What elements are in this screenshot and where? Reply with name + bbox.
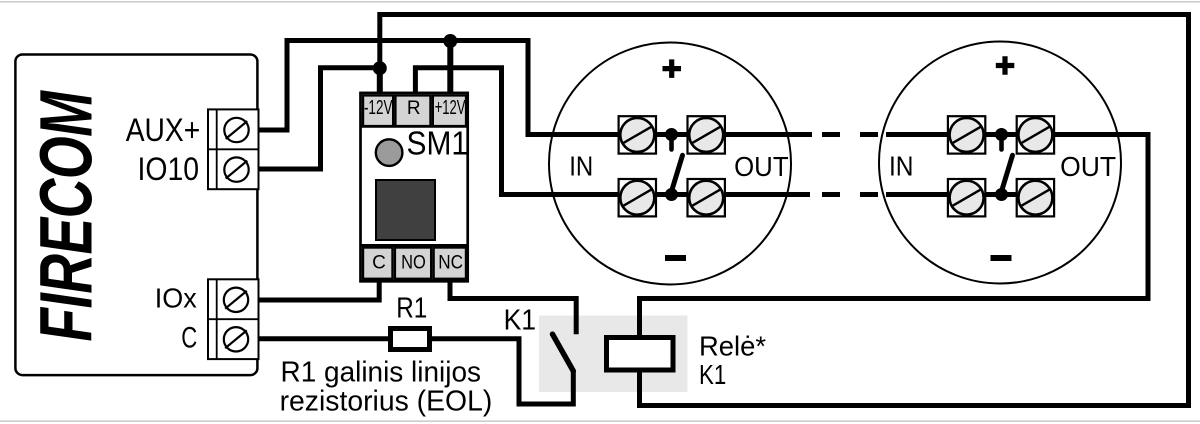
svg-text:R1: R1: [396, 293, 427, 325]
label - detector 2: [991, 255, 1012, 261]
screw terminal IOx: [224, 288, 248, 312]
screw terminal det2 IN+: [948, 116, 985, 153]
wire NC terminal to switch fixed contact: [450, 281, 576, 334]
wire detector1 OUT-: [723, 192, 810, 197]
label + detector 1: [663, 59, 682, 78]
terminal block IOx/C: [208, 279, 259, 359]
wire detector1 OUT+: [723, 132, 812, 137]
screw terminal IO10: [224, 157, 248, 181]
node det2 bottom junction: [995, 188, 1008, 201]
svg-text:R: R: [407, 98, 421, 119]
screw terminal det2 IN-: [948, 179, 985, 216]
wire C panel terminal to resistor R1: [259, 336, 391, 341]
label + detector 2: [996, 56, 1015, 75]
svg-text:IOx: IOx: [155, 283, 197, 314]
wire +12V pin: [447, 41, 453, 94]
screw terminal det1 OUT-: [688, 179, 725, 216]
wire top loop to relay coil bottom: [380, 15, 1189, 406]
svg-text:C: C: [181, 322, 197, 355]
svg-text:NC: NC: [438, 252, 463, 273]
module SM1 body: [361, 93, 468, 281]
svg-text:IN: IN: [569, 151, 593, 182]
terminal cell NC: [434, 248, 466, 279]
page bottom rule: [0, 420, 1200, 422]
wire detector2 top internal: [985, 132, 1020, 137]
screw terminal det2 OUT-: [1017, 179, 1054, 216]
svg-text:IN: IN: [889, 151, 914, 182]
node det2 top junction: [995, 128, 1008, 141]
node det1 bottom junction: [665, 188, 678, 201]
wire resistor R1 to switch moving contact: [430, 339, 573, 404]
wire IOx to C terminal of SM1: [259, 281, 380, 300]
svg-text:-12V: -12V: [364, 97, 393, 119]
relay component block: [376, 180, 435, 240]
FIRECOM panel box: [15, 55, 257, 376]
wire detector2 IN-: [886, 192, 951, 197]
svg-text:OUT: OUT: [734, 151, 789, 182]
wire -12V pin: [377, 68, 383, 94]
wire dashed loop continuation -: [822, 192, 878, 197]
svg-text:SM1: SM1: [407, 124, 469, 161]
switch blade K1: [553, 334, 574, 371]
switch contact detector 1: [671, 135, 682, 193]
terminal cell NO: [395, 248, 431, 279]
screw terminal det1 IN-: [619, 179, 656, 216]
svg-text:NO: NO: [401, 252, 426, 273]
svg-text:OUT: OUT: [1060, 151, 1116, 182]
wire net AUX+ to +12V and detector1 IN+: [259, 41, 621, 135]
svg-text:K1: K1: [504, 304, 536, 336]
screw terminal det1 OUT+: [688, 116, 725, 153]
svg-text:rezistorius (EOL): rezistorius (EOL): [280, 386, 493, 418]
screw terminal det2 OUT+: [1017, 116, 1054, 153]
relay area background: [539, 316, 688, 393]
label - detector 1: [665, 255, 686, 261]
svg-text:FIRECOM: FIRECOM: [24, 90, 107, 342]
svg-text:AUX+: AUX+: [126, 112, 201, 148]
relay coil K1: [607, 338, 674, 371]
wire net IO10 to -12V: [259, 68, 380, 169]
svg-text:+12V: +12V: [435, 97, 466, 119]
wire detector2 OUT+ to relay coil top: [640, 135, 1149, 340]
svg-text:R1 galinis linijos: R1 galinis linijos: [281, 357, 482, 389]
terminal block AUX+/IO10: [208, 109, 259, 189]
wire dashed loop continuation +: [822, 132, 878, 137]
detector 2 circle: [879, 42, 1121, 284]
wire detector2 bottom internal: [985, 192, 1020, 197]
terminal cell C: [363, 248, 393, 279]
svg-text:Relė*: Relė*: [699, 331, 766, 362]
node junction +12V: [443, 34, 457, 48]
LED indicator: [376, 139, 403, 166]
svg-text:C: C: [372, 252, 386, 273]
detector 1 circle: [549, 43, 791, 285]
screw terminal AUX+: [224, 118, 248, 142]
terminal cell +12V: [433, 95, 466, 126]
screw terminal C: [224, 327, 248, 351]
wire net R terminal to detector1 IN-: [415, 68, 620, 195]
node junction -12V: [373, 61, 387, 75]
switch contact detector 2: [1001, 135, 1012, 193]
terminal cell R: [395, 95, 430, 126]
wire detector1 top internal: [654, 132, 689, 137]
node det1 top junction: [665, 128, 678, 141]
svg-text:K1: K1: [699, 359, 726, 390]
screw terminal det1 IN+: [619, 116, 656, 153]
wire detector2 IN+: [886, 132, 951, 137]
terminal cell -12V: [363, 95, 393, 126]
page top rule: [0, 1, 1200, 3]
svg-text:IO10: IO10: [138, 151, 200, 187]
resistor R1: [391, 329, 430, 350]
wire detector1 bottom internal: [654, 192, 689, 197]
